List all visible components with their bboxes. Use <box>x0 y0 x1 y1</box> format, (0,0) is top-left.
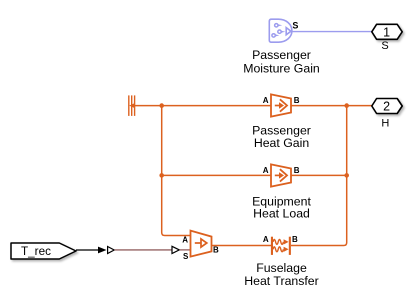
svg-text:2: 2 <box>383 100 390 114</box>
inport block T_rec <box>11 243 76 259</box>
svg-text:A: A <box>263 235 269 244</box>
svg-text:B: B <box>294 166 300 175</box>
label: Equipment Heat Load <box>252 194 311 220</box>
outport 1 (S) hexagon <box>372 24 402 39</box>
svg-text:S: S <box>381 40 388 52</box>
converter triangle 2 (hollow) <box>172 246 179 253</box>
svg-text:1: 1 <box>383 25 390 39</box>
source U1: Passenger Moisture Gain (moist air source block) <box>269 19 292 42</box>
label: Passenger Moisture Gain <box>243 48 320 75</box>
junction dot left top <box>159 103 164 108</box>
svg-text:T_rec: T_rec <box>21 245 51 258</box>
wire arrowhead into thermal reference <box>129 103 135 108</box>
svg-text:B: B <box>294 96 300 105</box>
svg-text:B: B <box>213 245 219 254</box>
svg-text:B: B <box>292 235 298 244</box>
wire: middle row right (Equipment B to right bus) <box>291 174 347 176</box>
conductive heat transfer block: Fuselage Heat Transfer <box>271 237 291 255</box>
svg-text:Moisture Gain: Moisture Gain <box>243 61 320 75</box>
wire: moisture source S to outport 1 (purple physical line) <box>292 31 372 33</box>
wire: Passenger Heat Gain B to outport 2 <box>291 105 372 107</box>
svg-text:Passenger: Passenger <box>252 48 311 62</box>
heat source block: Equipment Heat Load <box>271 164 291 186</box>
svg-text:A: A <box>182 235 188 244</box>
junction dot right top <box>344 103 349 108</box>
svg-text:Heat Load: Heat Load <box>253 207 310 221</box>
arrowhead on T_rec signal <box>98 247 107 254</box>
wire: T_rec signal (black) <box>76 249 100 251</box>
outport 2 (H) hexagon <box>372 99 402 114</box>
heat source block: Passenger Heat Gain <box>271 94 291 116</box>
svg-text:S: S <box>183 252 189 261</box>
controlled temperature source block <box>191 231 212 257</box>
svg-text:Heat Transfer: Heat Transfer <box>244 274 319 288</box>
label: Fuselage Heat Transfer <box>244 261 319 288</box>
converter triangle 1 (hollow) <box>108 247 115 254</box>
label: Passenger Heat Gain <box>252 123 311 150</box>
svg-text:H: H <box>381 118 389 130</box>
wire: middle row left (bus to Equipment A) <box>162 174 271 176</box>
junction dot left middle <box>159 173 164 178</box>
svg-text:A: A <box>263 166 269 175</box>
wire: top row (thermal bus to Passenger Heat Gain A) <box>135 105 271 107</box>
junction dot right middle <box>344 173 349 178</box>
wire: physical signal (dark red) to temperature source S <box>115 249 172 251</box>
svg-text:A: A <box>263 96 269 105</box>
svg-text:Heat Gain: Heat Gain <box>254 136 310 150</box>
svg-text:S: S <box>292 21 298 31</box>
thermal reference port (three bars) <box>129 95 135 116</box>
wire: left vertical bus <box>162 106 191 236</box>
wire: right vertical bus from Fuselage B up to outport 2 line <box>291 106 347 246</box>
wire: temperature source B to Fuselage Heat Transfer A <box>212 245 272 247</box>
wire: physical signal stub into S port <box>180 249 191 251</box>
